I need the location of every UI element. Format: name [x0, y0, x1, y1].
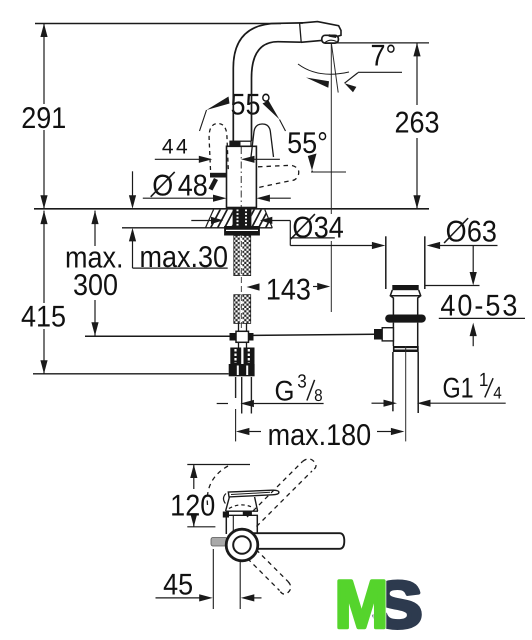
svg-text:1: 1 [479, 370, 489, 391]
svg-text:120: 120 [170, 490, 215, 523]
svg-text:O: O [446, 216, 467, 249]
svg-text:4: 4 [493, 383, 502, 402]
svg-text:415: 415 [21, 301, 66, 334]
svg-text:max.180: max.180 [268, 419, 372, 452]
svg-text:45: 45 [163, 569, 193, 602]
svg-text:55°: 55° [287, 127, 328, 160]
svg-text:48: 48 [178, 169, 208, 202]
svg-text:M: M [335, 568, 388, 640]
svg-text:8: 8 [314, 386, 323, 405]
svg-text:O: O [152, 169, 173, 202]
svg-text:291: 291 [21, 102, 66, 135]
svg-text:44: 44 [162, 135, 190, 158]
svg-text:O: O [292, 211, 313, 244]
svg-text:40-53: 40-53 [440, 290, 519, 323]
svg-text:300: 300 [73, 269, 118, 302]
svg-text:3: 3 [297, 371, 307, 392]
svg-text:7°: 7° [371, 40, 397, 73]
svg-text:max.30: max.30 [140, 241, 229, 274]
svg-text:263: 263 [394, 107, 439, 140]
svg-text:34: 34 [314, 211, 344, 244]
svg-text:G1: G1 [443, 372, 474, 404]
svg-text:143: 143 [266, 274, 311, 307]
svg-text:63: 63 [467, 216, 497, 249]
svg-text:G: G [275, 376, 295, 408]
